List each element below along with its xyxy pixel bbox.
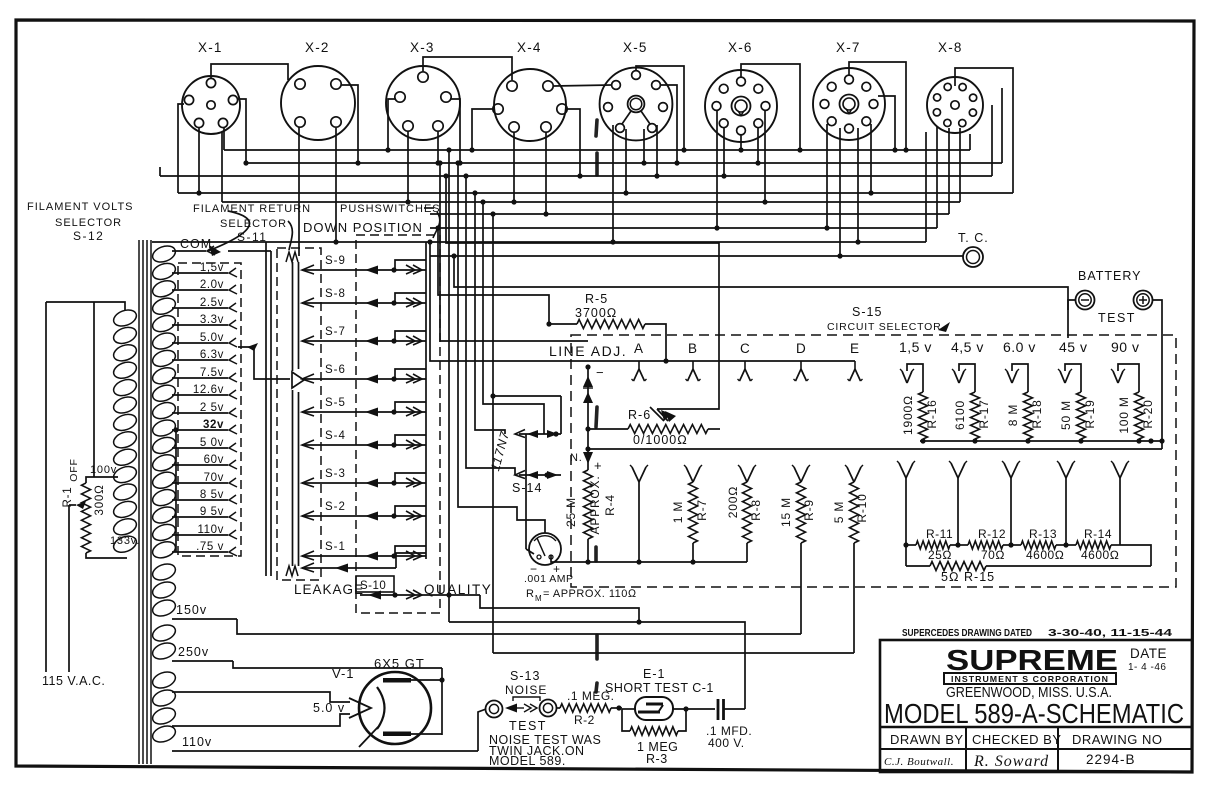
svg-text:R-9: R-9 <box>802 499 816 521</box>
svg-text:INSTRUMENT S CORPORATION: INSTRUMENT S CORPORATION <box>951 674 1109 684</box>
wire riser to A-E line <box>427 239 625 361</box>
svg-text:R. Soward: R. Soward <box>973 753 1049 770</box>
svg-text:R-16: R-16 <box>925 399 939 428</box>
wire to C-1 <box>449 619 745 709</box>
tap 250v <box>172 645 233 661</box>
label noise test note <box>489 733 601 768</box>
svg-text:0/1000Ω: 0/1000Ω <box>633 433 688 447</box>
transformer core <box>139 240 151 764</box>
svg-text:4600Ω: 4600Ω <box>1081 548 1119 562</box>
dashed box S-11 <box>277 248 321 580</box>
svg-text:S-2: S-2 <box>325 501 346 513</box>
label R-6 <box>628 408 688 447</box>
wire 110v to jack <box>478 709 486 751</box>
svg-text:B: B <box>688 341 698 356</box>
wire y449 to battery plus <box>588 448 1162 450</box>
logo SUPREME <box>946 645 1118 677</box>
svg-text:LINE ADJ.: LINE ADJ. <box>549 343 627 359</box>
battery plus terminal <box>1134 291 1153 310</box>
label FILAMENT RETURN <box>193 203 311 215</box>
label 115 V.A.C. <box>42 674 105 688</box>
dashed box S-12 selector <box>178 263 241 556</box>
resistor R-5 <box>546 320 668 364</box>
transformer taps with labels <box>172 237 237 556</box>
battery range contact 1,5 v <box>899 339 932 392</box>
svg-text:R-6: R-6 <box>628 408 651 422</box>
label TEST <box>509 719 547 733</box>
jack S-13 left <box>486 701 503 718</box>
svg-text:QUALITY: QUALITY <box>424 582 492 597</box>
svg-text:PUSHSWITCHES: PUSHSWITCHES <box>340 203 441 215</box>
tube V-1 heater <box>349 698 371 718</box>
svg-text:S-4: S-4 <box>325 430 346 442</box>
wire collector vertical <box>425 242 427 559</box>
svg-text:5.0v: 5.0v <box>200 332 224 344</box>
wire X-7 right pin drop <box>878 96 898 153</box>
wire riser to R-5 <box>435 225 549 324</box>
svg-text:R-2: R-2 <box>574 713 595 727</box>
pushswitch S-3 <box>302 468 426 488</box>
svg-text:T. C.: T. C. <box>958 231 989 245</box>
wire meter right to R-4 rail <box>551 555 588 562</box>
wire riser to meter top <box>455 160 545 533</box>
svg-text:100v: 100v <box>90 464 117 476</box>
label DRAWN BY <box>890 732 964 747</box>
resistor R-14 <box>1066 527 1120 562</box>
wire X-4 left pin drop <box>469 109 493 153</box>
svg-text:6100: 6100 <box>953 400 967 430</box>
svg-text:E: E <box>850 341 860 356</box>
wire S-11 feed verticals <box>228 242 271 576</box>
svg-text:R-12: R-12 <box>978 527 1006 541</box>
pushswitch S-1 <box>302 541 426 561</box>
label SELECTOR S-11 <box>220 218 287 244</box>
svg-text:X-8: X-8 <box>938 40 963 55</box>
label PUSHSWITCHES <box>340 203 441 215</box>
svg-text:6.0 v: 6.0 v <box>1003 339 1036 355</box>
tube socket X-5 <box>600 40 673 140</box>
resistor R-6 <box>585 407 720 434</box>
battery range contact 4,5 v <box>951 339 984 392</box>
label LINE ADJ <box>548 343 627 359</box>
label R-5 <box>575 292 617 320</box>
svg-text:SELECTOR: SELECTOR <box>55 217 122 229</box>
svg-text:TEST: TEST <box>509 719 547 733</box>
pushswitch leakage contact <box>302 553 426 573</box>
svg-text:A: A <box>634 341 644 356</box>
wire meter branch <box>570 429 602 473</box>
svg-text:2 5v: 2 5v <box>200 402 224 414</box>
svg-text:115 V.A.C.: 115 V.A.C. <box>42 674 105 688</box>
svg-text:E-1: E-1 <box>643 667 665 681</box>
svg-text:DOWN POSITION: DOWN POSITION <box>303 220 423 235</box>
svg-text:5 0v: 5 0v <box>200 437 224 449</box>
wire 150v run to R-9 <box>237 619 801 634</box>
switch S-14 row2 <box>515 471 561 480</box>
tap 150v <box>172 603 237 619</box>
label S-13 <box>510 669 540 683</box>
meter M .001 AMP <box>524 533 574 585</box>
wire bus right staircase <box>926 88 1002 242</box>
svg-text:MODEL 589-A-SCHEMATIC: MODEL 589-A-SCHEMATIC <box>884 698 1184 729</box>
svg-text:C.J. Boutwall.: C.J. Boutwall. <box>884 756 954 768</box>
resistor R-12 <box>958 527 1014 562</box>
svg-text:TEST: TEST <box>1098 311 1136 325</box>
switch blade S-11 wiper triangle <box>292 372 304 388</box>
svg-text:R-7: R-7 <box>695 499 709 521</box>
tube V-1 6X5GT envelope <box>359 672 431 744</box>
svg-text:S-8: S-8 <box>325 288 346 300</box>
svg-text:CHECKED BY: CHECKED BY <box>972 732 1062 747</box>
svg-text:+: + <box>594 458 602 473</box>
svg-text:DATE: DATE <box>1130 646 1167 661</box>
svg-text:1,5v: 1,5v <box>200 262 224 274</box>
wire riser line-adj <box>437 160 588 341</box>
resistor R-9 <box>779 465 816 634</box>
label R-3 <box>637 740 678 766</box>
svg-text:FILAMENT RETURN: FILAMENT RETURN <box>193 203 311 215</box>
label greenwood <box>946 685 1112 701</box>
svg-text:70Ω: 70Ω <box>981 548 1005 562</box>
label 5.0v heater <box>313 701 345 715</box>
svg-text:X-3: X-3 <box>410 40 435 55</box>
svg-text:X-4: X-4 <box>517 40 542 55</box>
wire S-13 bracket <box>513 697 540 701</box>
tube socket X-3 <box>386 40 460 140</box>
resistor R-7 <box>671 465 709 565</box>
wire X-1 top to X-2 <box>211 64 288 80</box>
label 6X5GT <box>374 656 425 671</box>
svg-text:5.0 v: 5.0 v <box>313 701 345 715</box>
wire 115VAC lead left <box>45 302 47 672</box>
svg-text:7.5v: 7.5v <box>200 367 224 379</box>
svg-text:SHORT TEST C-1: SHORT TEST C-1 <box>605 681 714 695</box>
resistor R-13 <box>1011 527 1069 562</box>
svg-text:S-14: S-14 <box>512 481 542 495</box>
tube socket X-6 <box>705 40 777 142</box>
svg-text:= APPROX. 110Ω: = APPROX. 110Ω <box>543 588 637 600</box>
svg-text:32v: 32v <box>203 419 224 431</box>
svg-text:R-11: R-11 <box>926 527 953 541</box>
tap 110v <box>172 735 478 751</box>
tube V-1 plates <box>383 678 411 736</box>
svg-text:CIRCUIT SELECTOR: CIRCUIT SELECTOR <box>827 321 942 333</box>
resistor R-19 <box>1059 392 1097 444</box>
svg-text:S-7: S-7 <box>325 326 346 338</box>
svg-text:1,5 v: 1,5 v <box>899 339 932 355</box>
svg-text:100 M: 100 M <box>1117 396 1131 433</box>
switch S-14 row1 <box>515 430 561 439</box>
wire S-14 links <box>526 434 534 554</box>
svg-text:V-1: V-1 <box>332 666 355 681</box>
lamp E-1 short test <box>622 697 715 720</box>
wire X-2 tr pin drop <box>341 85 361 166</box>
svg-text:X-6: X-6 <box>728 40 753 55</box>
wire contact-A column <box>630 465 648 565</box>
logo instruments corporation <box>944 673 1116 684</box>
tube socket X-4 <box>493 40 567 141</box>
svg-text:8 5v: 8 5v <box>200 489 224 501</box>
resistor R-10 <box>832 465 869 653</box>
label 2294-B <box>1086 752 1136 767</box>
svg-text:X-1: X-1 <box>198 40 223 55</box>
resistor R-15 <box>906 545 1151 584</box>
svg-text:110v: 110v <box>182 735 212 749</box>
title block frame <box>880 640 1192 772</box>
wire X-7 top hook <box>849 62 909 153</box>
svg-text:OFF: OFF <box>68 458 80 481</box>
svg-text:300Ω: 300Ω <box>94 485 106 516</box>
switch S-13 arrows <box>505 704 537 713</box>
svg-text:N.: N. <box>570 452 583 464</box>
wire R-6 feed rect <box>443 173 719 422</box>
label C-1 value <box>706 724 752 750</box>
wire X-3 left pin drop <box>385 99 396 153</box>
wire V-1 plate join <box>410 668 445 735</box>
resistor R-4 <box>584 462 593 565</box>
svg-text:S-11: S-11 <box>237 230 267 244</box>
svg-text:R-19: R-19 <box>1083 399 1097 428</box>
svg-text:COM: COM <box>180 237 212 251</box>
svg-text:250v: 250v <box>178 645 209 659</box>
svg-text:3-30-40, 11-15-44: 3-30-40, 11-15-44 <box>1048 627 1172 639</box>
svg-text:400 V.: 400 V. <box>708 736 745 750</box>
wire 32v link <box>173 427 178 552</box>
svg-text:150v: 150v <box>176 603 207 617</box>
wire riser to 117N7 a <box>480 199 544 434</box>
signature C.J. Boutwall <box>884 756 954 768</box>
svg-text:SELECTOR: SELECTOR <box>220 218 287 230</box>
svg-text:D: D <box>796 341 807 356</box>
wire X-4 to X-5 link <box>554 85 611 86</box>
jack S-13 right <box>540 700 557 717</box>
resistor R-18 <box>1006 392 1044 444</box>
svg-text:5Ω R-15: 5Ω R-15 <box>941 570 995 584</box>
svg-text:C: C <box>740 341 751 356</box>
battery range contact 6.0 v <box>1003 339 1036 392</box>
transformer primary winding <box>46 302 139 555</box>
resistor R-1 <box>82 477 128 558</box>
svg-text:60v: 60v <box>204 454 224 466</box>
wire riser to S-14 row1 <box>472 190 505 434</box>
svg-text:S-6: S-6 <box>325 364 346 376</box>
label R-4 <box>564 476 617 535</box>
svg-text:6.3v: 6.3v <box>200 349 224 361</box>
svg-text:1900Ω: 1900Ω <box>901 395 915 435</box>
wire R-1 top feed <box>93 302 95 477</box>
svg-text:R-18: R-18 <box>1030 399 1044 428</box>
svg-text:.001 AMP: .001 AMP <box>524 573 574 585</box>
wire X-3 right pin drop <box>450 99 463 166</box>
tube socket X-8 <box>927 40 983 133</box>
svg-text:FILAMENT VOLTS: FILAMENT VOLTS <box>27 201 134 213</box>
svg-text:S-1: S-1 <box>325 541 346 553</box>
title block grid <box>880 727 1192 772</box>
pushswitch S-6 <box>302 364 426 384</box>
battery range contact 45 v <box>1058 339 1087 392</box>
tube socket X-7 <box>813 40 885 140</box>
arrow S-12 to COM <box>208 211 250 256</box>
pushswitch S-10 <box>360 590 639 622</box>
switch S-10 box <box>356 576 394 592</box>
svg-text:S-10: S-10 <box>360 580 386 592</box>
label SHORT TEST C-1 <box>605 681 714 695</box>
svg-text:45 v: 45 v <box>1059 339 1087 355</box>
label MODEL 589-A-SCHEMATIC <box>884 698 1184 729</box>
svg-text:X-2: X-2 <box>305 40 330 55</box>
tube V-1 cathode <box>359 687 385 747</box>
label DOWN POSITION <box>303 220 423 235</box>
dashed box pushswitches <box>356 235 440 613</box>
label FILAMENT VOLTS <box>27 201 134 213</box>
pushswitch S-7 <box>302 326 426 346</box>
wire riser battery minus line <box>451 253 1068 338</box>
switch blade S-11 lower <box>286 390 299 576</box>
battery minus terminal <box>1076 291 1095 310</box>
wire X-6 top hook <box>741 64 803 153</box>
resistor R-8 <box>726 465 763 562</box>
signature R. Soward <box>973 753 1049 770</box>
pushswitch S-8 <box>302 288 426 308</box>
wire R-16..R-20 bottom rail <box>920 440 1162 442</box>
svg-text:APPROX.: APPROX. <box>588 476 602 535</box>
svg-text:S-9: S-9 <box>325 255 346 267</box>
label supercedes <box>902 627 1172 639</box>
wire bus left ends <box>160 104 224 202</box>
svg-text:.75 v: .75 v <box>196 541 224 553</box>
switch blade S-11 upper <box>286 252 299 371</box>
svg-text:S-12: S-12 <box>73 229 104 243</box>
svg-text:NOISE: NOISE <box>505 683 547 697</box>
wire 250v run <box>233 661 442 668</box>
svg-text:R-17: R-17 <box>977 399 991 428</box>
svg-text:200Ω: 200Ω <box>726 486 740 518</box>
svg-text:133v.: 133v. <box>110 535 140 547</box>
contacts R-11 bank <box>897 461 1129 545</box>
wire X-5 ur hook <box>661 85 680 166</box>
svg-text:R-8: R-8 <box>749 499 763 521</box>
resistor R-3 <box>622 709 686 735</box>
wire 115VAC lead right <box>69 501 86 672</box>
svg-text:70v: 70v <box>204 472 224 484</box>
capacitor C-1 <box>718 699 745 720</box>
svg-text:X-7: X-7 <box>836 40 861 55</box>
svg-text:MODEL 589.: MODEL 589. <box>489 754 566 768</box>
wire 5.0v tap to S-11 blade <box>238 343 290 379</box>
svg-text:R-3: R-3 <box>646 752 668 766</box>
svg-text:12.6v: 12.6v <box>193 384 224 396</box>
wire R-4 bottom rail <box>588 561 747 563</box>
svg-text:DRAWN BY: DRAWN BY <box>890 732 964 747</box>
svg-text:X-5: X-5 <box>623 40 648 55</box>
svg-text:R-1: R-1 <box>62 487 74 508</box>
resistor R-2 <box>556 704 622 712</box>
svg-text:BATTERY: BATTERY <box>1078 269 1142 283</box>
wire bus horizontal lines <box>152 150 1013 256</box>
svg-text:2.0v: 2.0v <box>200 279 224 291</box>
svg-text:R-5: R-5 <box>585 292 608 306</box>
svg-text:5 M: 5 M <box>832 501 846 523</box>
svg-text:25 M: 25 M <box>564 497 578 527</box>
wire A-E contact line <box>625 360 855 362</box>
label S-14 <box>512 481 542 495</box>
label R-2 <box>567 689 615 727</box>
wire X-3 top to X-4 <box>423 57 512 80</box>
label BATTERY TEST <box>1078 269 1142 325</box>
svg-text:R-20: R-20 <box>1141 399 1155 428</box>
svg-text:LEAKAGE: LEAKAGE <box>294 582 364 597</box>
svg-text:S-5: S-5 <box>325 397 346 409</box>
tube socket X-1 <box>182 40 240 134</box>
svg-text:SUPERCEDES DRAWING DATED: SUPERCEDES DRAWING DATED <box>902 627 1032 639</box>
resistor R-11 <box>903 527 960 562</box>
pushswitch S-2 <box>302 501 426 521</box>
svg-text:R-14: R-14 <box>1084 527 1112 541</box>
wire R-14 to right <box>1120 545 1151 566</box>
svg-text:M: M <box>535 594 542 603</box>
svg-text:R-4: R-4 <box>603 494 617 516</box>
arrow S-11 <box>288 221 292 250</box>
svg-text:−: − <box>596 365 604 380</box>
label S-15 CIRCUIT SELECTOR <box>827 305 950 333</box>
svg-text:3.3v: 3.3v <box>200 314 224 326</box>
label LEAKAGE <box>294 582 364 597</box>
pushswitch S-9 <box>302 255 426 275</box>
svg-text:DRAWING NO: DRAWING NO <box>1072 732 1162 747</box>
svg-text:117N7: 117N7 <box>488 429 512 472</box>
svg-text:50 M: 50 M <box>1059 400 1073 430</box>
pushswitch S-5 <box>302 397 426 417</box>
resistor R-16 <box>901 392 939 444</box>
svg-text:4,5 v: 4,5 v <box>951 339 984 355</box>
svg-text:R: R <box>526 588 535 600</box>
svg-text:6X5 GT: 6X5 GT <box>374 656 425 671</box>
label NOISE <box>505 683 547 697</box>
wire X-8 top hook <box>955 68 1013 193</box>
transformer secondary winding upper <box>150 243 177 561</box>
wire line-adj arm <box>583 364 604 429</box>
svg-text:4600Ω: 4600Ω <box>1026 548 1064 562</box>
wire quality return <box>0 0 1 1</box>
wire heater leads <box>172 692 350 726</box>
label E-1 <box>643 667 665 681</box>
wire riser to 117N7 b <box>490 211 561 653</box>
label 117N7 <box>488 429 512 472</box>
tube socket X-2 <box>281 40 355 140</box>
wire battery plus <box>1148 300 1164 449</box>
svg-text:2294-B: 2294-B <box>1086 752 1136 767</box>
svg-text:8 M: 8 M <box>1006 404 1020 426</box>
resistor R-20 <box>1117 392 1155 444</box>
wire X-5 top hook <box>636 66 687 153</box>
wire X-2 bl pin drop to S-11 <box>298 127 300 256</box>
label RM approx <box>526 588 637 603</box>
svg-text:R-10: R-10 <box>855 493 869 522</box>
svg-text:3700Ω: 3700Ω <box>575 306 617 320</box>
wire battery minus <box>1068 300 1075 310</box>
terminal T.C. <box>958 231 989 267</box>
wire X-4 right pin drop <box>567 109 583 179</box>
wire R-10 run <box>493 652 854 654</box>
dashed box S-15 <box>571 335 1176 587</box>
svg-text:S-13: S-13 <box>510 669 540 683</box>
svg-text:1- 4 -46: 1- 4 -46 <box>1128 662 1166 673</box>
label DRAWING NO <box>1072 732 1162 747</box>
wire X-1 right pin drop <box>237 99 249 166</box>
battery range contact 90 v <box>1111 339 1139 392</box>
svg-text:9 5v: 9 5v <box>200 506 224 518</box>
contacts A B C D E <box>632 341 863 381</box>
